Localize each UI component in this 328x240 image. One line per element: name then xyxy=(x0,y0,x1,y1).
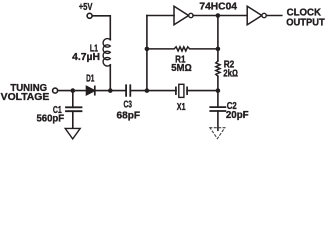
crystal X1 xyxy=(176,87,187,94)
svg-text:20pF: 20pF xyxy=(226,110,249,121)
wire L1 bottom to rail xyxy=(109,65,111,91)
wire inverter1 input xyxy=(147,15,174,17)
svg-text:2kΩ: 2kΩ xyxy=(223,68,238,79)
wire terminal to D1 xyxy=(58,90,87,92)
wire D1 to C3 xyxy=(95,90,126,92)
node feedback bottom xyxy=(145,88,150,93)
svg-text:+5V: +5V xyxy=(79,2,93,13)
resistor R2 xyxy=(216,61,220,76)
resistor R1 xyxy=(147,47,218,51)
inverter U1A xyxy=(174,6,189,25)
node output bottom xyxy=(216,88,221,93)
capacitor C2 xyxy=(217,91,219,108)
ground C2 dashed xyxy=(210,128,225,139)
wire X1 to node xyxy=(187,90,218,92)
svg-text:560pF: 560pF xyxy=(37,114,65,125)
diode D1 xyxy=(87,86,95,94)
inductor L1 xyxy=(103,39,110,66)
capacitor C1 xyxy=(72,91,74,108)
svg-text:D1: D1 xyxy=(86,74,95,85)
+5V terminal xyxy=(87,13,92,18)
wire output node down xyxy=(217,16,219,62)
tuning voltage terminal xyxy=(53,88,58,93)
svg-text:C3: C3 xyxy=(124,100,133,111)
wire C3 to X1 xyxy=(130,90,176,92)
node L1 bottom xyxy=(108,88,113,93)
ground C1 xyxy=(65,128,80,139)
svg-text:74HC04: 74HC04 xyxy=(199,2,237,13)
wire inverter1 output to inverter2 input xyxy=(193,15,247,17)
svg-text:5MΩ: 5MΩ xyxy=(171,63,192,74)
wire feedback left vertical xyxy=(146,16,148,91)
svg-text:68pF: 68pF xyxy=(117,110,141,121)
svg-text:OUTPUT: OUTPUT xyxy=(286,17,325,28)
wire R2 bottom xyxy=(217,76,219,90)
wire inverter2 output xyxy=(266,15,282,17)
svg-text:X1: X1 xyxy=(177,102,186,113)
node junction top xyxy=(216,13,221,18)
inverter U1B xyxy=(247,6,262,25)
node C1 branch xyxy=(71,88,76,93)
node R1 left xyxy=(145,47,150,52)
svg-text:VOLTAGE: VOLTAGE xyxy=(1,92,50,103)
wire +5V to L1 top xyxy=(92,16,110,40)
node R1 right xyxy=(216,47,221,52)
svg-text:4.7µH: 4.7µH xyxy=(72,52,100,63)
capacitor C3 xyxy=(126,85,130,96)
